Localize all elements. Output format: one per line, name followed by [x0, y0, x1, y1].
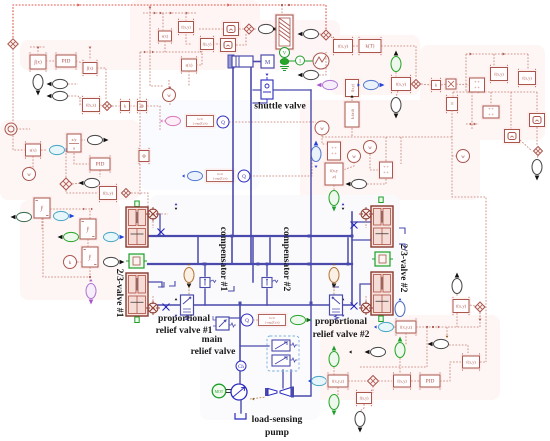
interlink 198 — [197, 237, 199, 264]
svg-text:M: M — [265, 60, 271, 66]
junction arrows bus 92 — [468, 91, 470, 94]
division block — [65, 132, 83, 154]
svg-text:+ +: + + — [331, 145, 337, 150]
pilot dash v2 top — [358, 213, 361, 215]
wire 359 to sum — [367, 178, 386, 184]
blue ellipse center — [311, 141, 321, 162]
wire — [470, 305, 475, 306]
main relief valve — [213, 316, 236, 330]
valve1 orifice X top — [158, 229, 165, 236]
wire ellipse up — [319, 52, 326, 75]
valve1 pilot arrows — [175, 203, 178, 205]
violet ellipse — [317, 80, 338, 89]
sensor w 354 — [348, 150, 361, 163]
blue arrow br — [374, 325, 377, 328]
wire to sink — [396, 91, 398, 97]
integrator tall 3 — [80, 245, 100, 269]
integrator tall 1 — [32, 196, 52, 220]
cyan ellipse 111 — [104, 232, 125, 241]
cluster arrows — [154, 12, 156, 15]
gain k right — [430, 78, 443, 92]
wire bus 92 — [453, 91, 537, 93]
blue arrow into ellipse — [357, 83, 360, 86]
wire — [411, 380, 420, 382]
shuttle arrow — [266, 74, 269, 76]
saturation block 2 — [180, 56, 199, 73]
function block top — [177, 19, 196, 35]
wire to diamond — [239, 28, 243, 30]
svg-text:2/3-valve #2: 2/3-valve #2 — [398, 244, 409, 293]
arrow into amplifier — [273, 27, 276, 30]
wire obox to diamond — [520, 140, 532, 151]
wire w370 down — [370, 154, 379, 170]
sensor k left — [64, 256, 77, 269]
function block top2 — [199, 36, 216, 52]
pilot dash orange 1 — [188, 283, 190, 296]
wire ellipse row1 — [68, 83, 78, 85]
pilot dash v1 top — [158, 213, 168, 215]
wire 406 right — [416, 313, 480, 327]
signal display 1 — [222, 21, 241, 38]
stub — [319, 33, 321, 35]
svg-text:proportional: proportional — [315, 316, 367, 327]
hydraulic wire — [239, 371, 241, 384]
green link — [289, 60, 313, 62]
interlink 232 — [231, 236, 233, 264]
wire tall1 down — [41, 218, 43, 230]
diamond 480 — [475, 302, 485, 312]
wire f to k — [353, 45, 359, 47]
ellipse 22 — [11, 212, 32, 221]
wire drop 494 — [493, 54, 495, 66]
wire to diamond right — [536, 127, 538, 145]
valve2 green center box — [372, 252, 393, 266]
svg-text:∫(x): ∫(x) — [33, 59, 42, 66]
green ellipse 400a — [395, 337, 405, 358]
wire tall2 to tall3 — [87, 239, 89, 247]
stub — [537, 156, 538, 159]
wire w354 down — [343, 162, 354, 170]
xdot block — [343, 100, 361, 129]
interlink 253 — [252, 237, 254, 282]
svg-text:compensator #1: compensator #1 — [218, 227, 229, 292]
stub w top — [169, 86, 171, 88]
black arrow 352 — [349, 350, 352, 353]
monitor 441 — [428, 339, 449, 348]
stub — [441, 84, 446, 85]
wire into sx — [162, 13, 164, 31]
wire xdot down — [351, 128, 353, 137]
function block 527 — [517, 69, 538, 87]
wire drop 511 — [510, 92, 512, 129]
cylinder line B — [250, 68, 252, 264]
svg-text:Ch: Ch — [364, 307, 368, 311]
sink 360 — [355, 412, 365, 433]
svg-text:load-sensing: load-sensing — [252, 414, 303, 425]
svg-text:proportional: proportional — [158, 313, 210, 324]
wire ellipse to f471 — [449, 345, 468, 353]
svg-text:s(x): s(x) — [186, 63, 193, 68]
pump control feed — [240, 345, 269, 347]
shuttle valve — [261, 77, 273, 103]
svg-text:w: w — [167, 94, 171, 99]
comp1 out — [204, 289, 206, 305]
mass block M — [261, 55, 274, 68]
pump control valve 1 — [272, 340, 298, 351]
wire — [394, 326, 396, 328]
stub — [72, 183, 82, 184]
green ellipse v — [391, 51, 401, 72]
svg-text:+ +: + + — [474, 79, 480, 84]
svg-text:∫ʳ: ∫ʳ — [88, 254, 93, 261]
wire — [250, 397, 266, 399]
svg-text:+ +: + + — [383, 164, 389, 169]
svg-text:PID: PID — [426, 379, 435, 385]
svg-text:Ch: Ch — [151, 307, 155, 311]
saturation left — [24, 141, 43, 158]
svg-text:shuttle valve: shuttle valve — [254, 101, 306, 112]
pilot v2 up — [365, 296, 367, 301]
wire w to row — [169, 100, 171, 106]
svg-text:bcd: bcd — [218, 172, 223, 176]
wire — [81, 139, 85, 141]
diamond top — [244, 24, 254, 34]
svg-text:u: u — [73, 146, 75, 151]
junction arrows cluster — [149, 7, 152, 9]
blue ellipse row2 — [188, 171, 203, 180]
main relief stub — [230, 317, 240, 319]
wire tall1 to tall2 — [50, 209, 90, 219]
gain k — [119, 99, 132, 113]
stub eq top — [452, 92, 454, 97]
wire — [456, 294, 458, 297]
sink ellipse 397 — [391, 98, 401, 119]
arrow into w — [169, 87, 171, 89]
shuttle out — [273, 89, 311, 91]
svg-text:x/y: x/y — [71, 137, 76, 142]
valve1 pilot node top — [146, 207, 160, 221]
valve 2/3 #2 upper body — [371, 206, 393, 247]
black arrow xdot — [350, 95, 353, 98]
wire diamond to f — [66, 190, 98, 193]
black arrow up 457 — [455, 274, 458, 277]
violet ellipse bottom — [86, 284, 96, 305]
cyan ellipse br — [379, 322, 394, 331]
green motor ellipse — [280, 59, 288, 65]
blue ellipse below valve2 — [395, 302, 405, 317]
interlink 348 — [347, 238, 349, 264]
arrow above orange 1 — [188, 263, 191, 265]
svg-text:Ch: Ch — [364, 213, 368, 217]
comp2 feed — [266, 264, 268, 276]
display right 1 — [528, 112, 547, 129]
svg-text:w: w — [461, 155, 465, 160]
cyan ellipse left — [50, 145, 71, 154]
wire s to w — [29, 156, 33, 167]
green ellipse flow — [291, 315, 312, 324]
diamond amp — [321, 30, 331, 40]
wire drop 528 — [527, 54, 529, 70]
valve1 bottom tank port — [135, 317, 139, 323]
compensator 1 valve — [200, 278, 216, 288]
function block 471 — [461, 353, 482, 370]
junction dot — [432, 326, 434, 328]
wire long loop right — [452, 110, 486, 362]
wire — [89, 47, 91, 60]
wire diamond to fxy — [331, 37, 337, 40]
green ellipse 334 — [329, 191, 339, 212]
motor MOT — [212, 384, 226, 398]
valve2 pilot node bottom — [359, 301, 373, 315]
monitor ellipse 2 — [298, 70, 319, 79]
shuttle bottom in — [253, 102, 267, 104]
svg-text:MOT: MOT — [215, 390, 224, 394]
main line H1 — [148, 235, 352, 237]
signal generator — [313, 53, 329, 69]
svg-text:2/3-valve #1: 2/3-valve #1 — [114, 269, 125, 318]
wire 400 down — [399, 358, 401, 374]
valve1 green center box — [126, 254, 147, 268]
wire obox2 up — [236, 34, 246, 45]
wire fxz to diamond — [100, 105, 103, 106]
arrow on wire 327 — [438, 326, 440, 329]
valve1 orifice X bottom — [163, 304, 170, 311]
PID controller 1 — [54, 52, 78, 69]
svg-text:k dx/dt: k dx/dt — [351, 109, 355, 119]
pink arrow — [160, 119, 163, 122]
wire int to PID — [46, 60, 56, 62]
svg-text:+ +: + + — [383, 170, 389, 175]
ellipse 457 — [452, 273, 462, 294]
brown arrow down 447 — [446, 336, 449, 338]
wire left drop 140 — [139, 52, 141, 196]
voltage source V — [280, 48, 290, 58]
rotated function block — [344, 78, 361, 99]
green ground symbol — [280, 67, 289, 71]
arrows tall1 to tall2 — [83, 208, 85, 210]
wire PID down — [99, 170, 101, 177]
small operator box — [136, 99, 149, 113]
PID controller 3 — [418, 372, 442, 389]
saturation block 1 — [157, 28, 174, 43]
orifice block 2 — [205, 169, 236, 184]
cyan ellipse 61 — [54, 211, 75, 220]
green ellipse 334c — [329, 395, 339, 416]
wire drop 491 — [490, 92, 492, 105]
flow sensor Q3 — [241, 314, 253, 326]
ellipse 111 262 — [104, 257, 125, 266]
svg-text:∫ʳ: ∫ʳ — [40, 205, 45, 212]
wire — [253, 319, 259, 321]
PID controller 2 — [88, 155, 112, 172]
wire — [333, 367, 335, 375]
control to venturi — [282, 370, 284, 388]
svg-text:Ch: Ch — [238, 365, 244, 370]
wire loop to w — [150, 52, 164, 86]
monitor ellipse top — [298, 29, 319, 38]
elbow fittings — [158, 228, 405, 291]
integrator tall 2 — [78, 217, 98, 241]
tank symbol — [235, 413, 246, 419]
svg-text:bcd: bcd — [270, 316, 275, 320]
stub — [333, 185, 335, 190]
junction arrows top-left — [37, 47, 40, 49]
wire div to PID — [74, 153, 89, 164]
wire — [337, 387, 339, 396]
monitor 359 — [346, 179, 367, 188]
wire int2 down — [97, 68, 106, 99]
junction dot — [89, 276, 91, 278]
flow sensor Q1 — [217, 116, 229, 128]
wire — [164, 120, 165, 122]
multiply box — [444, 77, 458, 91]
junction dot — [288, 4, 290, 6]
hydraulic junction dots — [203, 263, 206, 266]
svg-text:PID: PID — [62, 59, 71, 65]
wire 471 out — [480, 361, 486, 363]
blue arrow 319 — [308, 379, 311, 382]
arrow below diamond 480 — [479, 319, 482, 321]
valve 2/3 #2 lower body — [371, 272, 393, 315]
orange ellipse 2 — [329, 268, 339, 289]
wire into amplifier — [281, 5, 283, 14]
svg-text:+ +: + + — [331, 151, 337, 156]
function block right — [332, 37, 355, 55]
function block 499 — [489, 65, 510, 83]
pump to tank — [240, 400, 242, 413]
arrow above orange 2 — [333, 263, 336, 265]
function block 364 — [355, 390, 374, 406]
wire to obox2 — [213, 43, 223, 45]
svg-text:Ch: Ch — [151, 213, 155, 217]
function block 406 — [394, 318, 418, 335]
setpoint circle — [5, 123, 17, 135]
wire w in — [452, 155, 456, 157]
pump control valve 2 — [272, 355, 298, 366]
wire — [348, 380, 366, 382]
function block 338 — [326, 372, 350, 389]
wire to setpoint — [13, 128, 30, 130]
svg-text:Q: Q — [242, 175, 246, 180]
wire cross 124 — [466, 123, 479, 125]
wire to valve1 pilot — [131, 193, 148, 207]
svg-text:Q: Q — [245, 319, 249, 324]
wire f461 down — [456, 313, 458, 327]
pink ellipse — [166, 116, 181, 125]
fxyz tall block — [323, 161, 345, 187]
flow sensor Q2 — [238, 170, 250, 182]
orifice block 1 — [185, 114, 216, 129]
wire — [77, 261, 81, 263]
pump control valve box — [267, 336, 299, 371]
junction arrows cross 124 — [469, 123, 471, 126]
svg-text:k(T): k(T) — [366, 45, 375, 50]
hydraulic cylinder — [228, 55, 261, 68]
svg-text:≡: ≡ — [450, 102, 453, 108]
pump pressure riser — [239, 305, 241, 361]
main line H2 — [148, 263, 352, 265]
wire — [41, 149, 47, 151]
transfer function block — [357, 37, 383, 55]
orifice block 3 — [257, 313, 288, 328]
function block 402 — [392, 372, 413, 389]
sensor w right — [457, 150, 470, 163]
diamond 416 — [412, 80, 421, 89]
summing center — [326, 140, 343, 162]
stub — [421, 84, 431, 85]
black arrow 434 — [430, 342, 433, 345]
wire to ellipse 441 — [446, 327, 448, 336]
diamond far right — [534, 147, 543, 156]
svg-text:⊗: ⊗ — [140, 104, 144, 109]
junction dot — [281, 4, 283, 6]
stub — [456, 84, 469, 85]
compensator 2 valve — [262, 278, 278, 288]
wire 386 up — [385, 137, 387, 162]
node sensor Ch — [236, 361, 246, 371]
wire k to box — [130, 105, 137, 107]
sink far right — [532, 160, 542, 181]
integrator block 2 — [81, 60, 99, 76]
svg-text:bcd: bcd — [198, 117, 203, 121]
violet arrow up — [90, 279, 93, 281]
monitor 378 — [365, 347, 386, 356]
wire drop x150 — [149, 5, 151, 52]
valve 2/3 #1 lower body — [126, 273, 148, 316]
diamond junction A — [8, 39, 18, 49]
svg-text:main: main — [202, 334, 223, 345]
operator box left — [137, 148, 151, 164]
blue ellipse right — [364, 80, 385, 89]
shuttle left in — [253, 89, 261, 91]
pilot v2 down — [365, 221, 367, 228]
sensor w left — [23, 168, 36, 181]
multiply diamond — [103, 102, 112, 111]
svg-text:+ +: + + — [474, 85, 480, 90]
pilot dash v1 bottom — [158, 307, 161, 309]
load sensing line — [292, 90, 311, 396]
input ellipse 2 — [47, 91, 68, 100]
wire fxy to fxy2 — [186, 34, 192, 44]
diamond 126 — [122, 189, 131, 198]
duty ellipse — [259, 24, 280, 33]
blue arrow row2 — [182, 174, 185, 177]
wire diamond to ellipse — [254, 28, 257, 30]
svg-text:relief valve #2: relief valve #2 — [313, 329, 370, 340]
monitor ellipse 92 — [79, 178, 100, 187]
function block 461 — [451, 297, 471, 315]
wire kT to diamond — [381, 46, 416, 78]
wire w up — [168, 80, 170, 88]
wire PID out — [440, 362, 462, 381]
wire ellipse row2 — [68, 96, 80, 99]
top bus arrows — [77, 3, 80, 6]
summing block 2 — [481, 104, 501, 120]
svg-text:w: w — [352, 155, 356, 160]
constant block — [445, 95, 460, 113]
wire f406 down — [405, 333, 407, 345]
amplifier block — [274, 13, 295, 51]
arrows on horiz 52 — [144, 51, 146, 53]
integrator block 1 — [28, 52, 48, 71]
svg-text:PID: PID — [96, 162, 105, 168]
wire diamond to k — [112, 105, 120, 107]
cylinder line A — [232, 68, 234, 236]
wire top cluster — [143, 12, 196, 14]
wire tall3 down — [89, 267, 91, 283]
wire top bus — [13, 5, 326, 44]
svg-text:V: V — [283, 51, 287, 56]
